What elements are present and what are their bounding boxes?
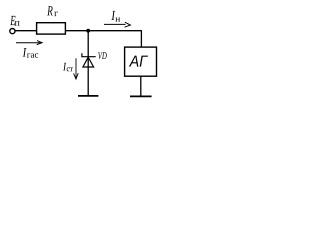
ground [130, 95, 152, 97]
ground [78, 95, 98, 97]
wire [65, 30, 141, 32]
current arrow Iн [104, 22, 130, 27]
terminal Eп [10, 29, 15, 34]
wire [140, 76, 142, 96]
label Eп [10, 16, 19, 26]
current arrow Iгас [16, 41, 42, 45]
wire [15, 30, 36, 32]
label Rг [47, 6, 58, 16]
label VD [98, 52, 107, 59]
block АГ [125, 47, 157, 76]
label Iгас [23, 48, 39, 58]
wire [87, 31, 89, 96]
resistor Rг [37, 23, 66, 34]
wire [140, 30, 142, 47]
junction [86, 29, 90, 33]
label АГ [129, 56, 148, 67]
label Iн [111, 11, 120, 22]
zener diode VD [82, 53, 96, 67]
current arrow Iст [74, 58, 79, 79]
label Iст [63, 63, 73, 71]
